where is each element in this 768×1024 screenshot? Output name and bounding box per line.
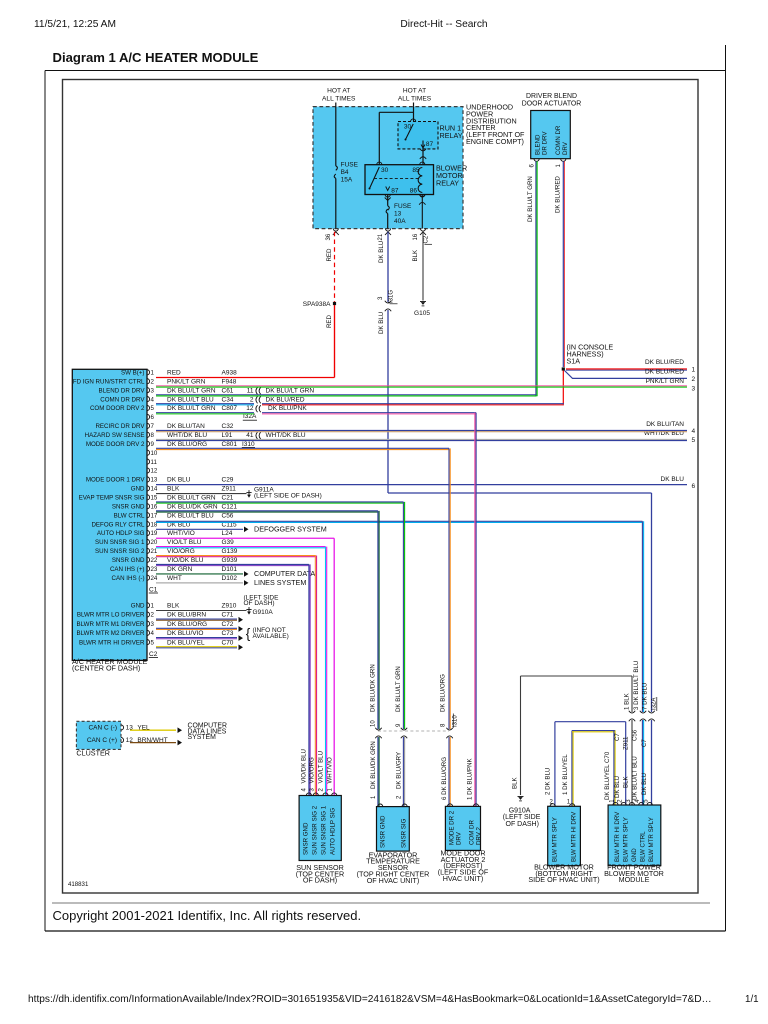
svg-text:A938: A938 — [222, 370, 238, 377]
svg-text:COMN DR: COMN DR — [555, 125, 562, 155]
svg-text:10: 10 — [151, 450, 158, 457]
svg-text:https://dh.identifix.com/Infor: https://dh.identifix.com/InformationAvai… — [28, 994, 712, 1005]
svg-text:4: 4 — [151, 396, 155, 403]
svg-text:SNSR GND: SNSR GND — [112, 557, 145, 564]
svg-text:BLW CTRL: BLW CTRL — [640, 831, 647, 862]
svg-text:12: 12 — [246, 405, 254, 412]
svg-text:Z910: Z910 — [222, 603, 237, 610]
svg-text:14: 14 — [151, 486, 158, 493]
svg-text:GND: GND — [131, 486, 145, 493]
svg-text:C2: C2 — [424, 235, 430, 243]
svg-text:3: 3 — [151, 621, 155, 628]
svg-text:RELAY: RELAY — [436, 179, 459, 188]
svg-text:WHT/VIO: WHT/VIO — [326, 757, 333, 783]
svg-text:20: 20 — [151, 539, 158, 546]
svg-text:C7: C7 — [641, 739, 648, 747]
svg-text:3: 3 — [692, 385, 696, 392]
svg-text:VIO/DK BLU: VIO/DK BLU — [300, 749, 307, 783]
svg-text:D102: D102 — [222, 575, 238, 582]
svg-text:Direct-Hit -- Search: Direct-Hit -- Search — [400, 19, 487, 30]
svg-text:DK BLU/LT GRN: DK BLU/LT GRN — [266, 387, 315, 394]
svg-text:1: 1 — [151, 370, 155, 377]
svg-text:CAN C (-): CAN C (-) — [88, 724, 117, 731]
svg-text:5: 5 — [151, 639, 155, 646]
svg-text:2: 2 — [151, 612, 155, 619]
svg-text:DEFOG RLY CTRL: DEFOG RLY CTRL — [91, 521, 145, 528]
svg-text:ALL TIMES: ALL TIMES — [322, 95, 356, 102]
svg-text:DK BLU/DK GRN: DK BLU/DK GRN — [369, 664, 376, 712]
svg-text:COM DOOR DRV 2: COM DOOR DRV 2 — [90, 405, 145, 412]
svg-text:15A: 15A — [341, 177, 353, 184]
svg-text:G939: G939 — [222, 557, 238, 564]
svg-text:BLW MTR SPLY: BLW MTR SPLY — [552, 817, 559, 862]
svg-text:G39: G39 — [222, 539, 235, 546]
svg-text:DR DRV: DR DRV — [542, 131, 549, 155]
svg-text:DK BLU/LT GRN: DK BLU/LT GRN — [527, 176, 534, 222]
svg-text:15: 15 — [151, 495, 158, 502]
svg-text:DRIVER BLEND: DRIVER BLEND — [526, 93, 577, 100]
svg-text:87: 87 — [426, 141, 434, 148]
svg-text:40A: 40A — [394, 218, 406, 225]
svg-text:2: 2 — [151, 378, 155, 385]
svg-text:9: 9 — [151, 441, 155, 448]
svg-text:DRV 2: DRV 2 — [475, 826, 482, 845]
svg-text:G139: G139 — [222, 548, 238, 555]
svg-text:C61: C61 — [222, 387, 234, 394]
svg-text:DEFOGGER SYSTEM: DEFOGGER SYSTEM — [254, 524, 327, 533]
svg-text:CAN C (+): CAN C (+) — [87, 737, 117, 744]
svg-text:21: 21 — [378, 233, 384, 240]
svg-text:OF DASH): OF DASH) — [506, 821, 539, 828]
svg-text:85: 85 — [412, 167, 420, 174]
svg-text:COMN DR DRV: COMN DR DRV — [100, 396, 145, 403]
svg-text:VIO/LT BLU: VIO/LT BLU — [167, 539, 202, 546]
svg-text:DK BLU/LT GRN: DK BLU/LT GRN — [167, 387, 216, 394]
svg-text:PNK/LT GRN: PNK/LT GRN — [167, 378, 206, 385]
svg-text:DK BLU/LT GRN: DK BLU/LT GRN — [167, 405, 216, 412]
svg-text:(CENTER OF DASH): (CENTER OF DASH) — [72, 664, 140, 673]
svg-text:1 BLK: 1 BLK — [624, 692, 631, 710]
svg-text:DK BLU/DK GRN: DK BLU/DK GRN — [167, 503, 218, 510]
svg-text:G910A: G910A — [253, 609, 274, 616]
svg-text:DK BLU/ORG: DK BLU/ORG — [440, 674, 447, 712]
svg-text:DK BLU: DK BLU — [661, 476, 685, 483]
svg-text:SYSTEM: SYSTEM — [188, 734, 217, 741]
svg-text:G105: G105 — [414, 310, 430, 317]
svg-text:22: 22 — [151, 557, 158, 564]
svg-text:CLUSTER: CLUSTER — [76, 749, 110, 758]
svg-text:1 DK BLU/YEL: 1 DK BLU/YEL — [562, 754, 569, 795]
svg-text:D101: D101 — [222, 566, 238, 573]
svg-text:HOT AT: HOT AT — [403, 88, 426, 95]
svg-text:36: 36 — [326, 233, 332, 240]
svg-text:BLK: BLK — [412, 249, 419, 262]
svg-text:AVAILABLE): AVAILABLE) — [253, 633, 289, 640]
svg-text:DK BLU: DK BLU — [167, 477, 191, 484]
svg-text:WHT/DK BLU: WHT/DK BLU — [167, 432, 207, 439]
svg-text:16: 16 — [413, 233, 419, 240]
svg-text:Z911: Z911 — [623, 736, 630, 750]
svg-text:FUSE: FUSE — [341, 162, 359, 169]
svg-text:5: 5 — [692, 437, 696, 444]
svg-text:I31G: I31G — [389, 290, 395, 303]
svg-text:BLW CTRL: BLW CTRL — [114, 512, 145, 519]
svg-text:C32: C32 — [222, 423, 234, 430]
svg-text:MODE DOOR 1 DRV: MODE DOOR 1 DRV — [86, 477, 146, 484]
svg-text:CAN IHS (-): CAN IHS (-) — [112, 575, 145, 582]
svg-text:3 DK BLU/LT BLU: 3 DK BLU/LT BLU — [633, 661, 640, 710]
svg-text:19: 19 — [151, 530, 158, 537]
svg-text:2: 2 — [250, 396, 254, 403]
svg-text:4: 4 — [692, 428, 696, 435]
svg-text:DK BLU: DK BLU — [378, 312, 385, 334]
svg-text:SNSR SIG: SNSR SIG — [401, 818, 408, 848]
svg-text:3: 3 — [151, 387, 155, 394]
svg-text:24: 24 — [151, 575, 158, 582]
svg-text:HOT AT: HOT AT — [327, 88, 350, 95]
svg-text:AUTO HDLP SIG: AUTO HDLP SIG — [330, 808, 337, 855]
svg-text:DK BLU/PNK: DK BLU/PNK — [268, 405, 307, 412]
svg-text:SW B(+): SW B(+) — [121, 370, 145, 377]
svg-text:DK BLU/ORG: DK BLU/ORG — [167, 621, 207, 628]
svg-text:DK BLU/LT BLU: DK BLU/LT BLU — [167, 396, 214, 403]
svg-text:SNSR GND: SNSR GND — [380, 815, 387, 848]
svg-text:16: 16 — [151, 503, 158, 510]
svg-text:OF DASH): OF DASH) — [244, 600, 275, 607]
svg-text:S1A: S1A — [567, 356, 581, 365]
svg-text:RECIRC DR DRV: RECIRC DR DRV — [95, 423, 145, 430]
svg-text:DK BLU/TAN: DK BLU/TAN — [167, 423, 205, 430]
svg-text:1 DK BLU/PNK: 1 DK BLU/PNK — [466, 757, 473, 800]
svg-text:(LEFT SIDE OF DASH): (LEFT SIDE OF DASH) — [254, 493, 322, 500]
svg-text:2: 2 — [692, 376, 696, 383]
svg-text:RELAY: RELAY — [440, 131, 463, 140]
svg-text:30: 30 — [381, 167, 389, 174]
svg-text:DK BLU/LT BLU: DK BLU/LT BLU — [632, 756, 639, 800]
svg-text:OF DASH): OF DASH) — [303, 876, 337, 885]
svg-text:C21: C21 — [222, 495, 234, 502]
svg-text:HVAC UNIT): HVAC UNIT) — [443, 874, 484, 883]
svg-text:23: 23 — [151, 566, 158, 573]
svg-text:21: 21 — [151, 548, 158, 555]
svg-text:Diagram 1 A/C HEATER MODULE: Diagram 1 A/C HEATER MODULE — [53, 50, 259, 65]
svg-text:13: 13 — [151, 477, 158, 484]
svg-text:11: 11 — [151, 459, 158, 466]
svg-text:L91: L91 — [222, 432, 233, 439]
svg-text:DK BLU/BRN: DK BLU/BRN — [167, 612, 206, 619]
svg-text:BLW MTR SPLY: BLW MTR SPLY — [648, 817, 655, 862]
svg-text:L24: L24 — [222, 530, 233, 537]
svg-text:GND: GND — [131, 603, 145, 610]
svg-text:DK BLU/YEL C70: DK BLU/YEL C70 — [604, 751, 611, 800]
svg-text:6: 6 — [151, 414, 155, 421]
svg-text:VIO/ORG: VIO/ORG — [309, 757, 316, 783]
svg-text:4: 4 — [151, 630, 155, 637]
svg-text:DK GRN: DK GRN — [167, 566, 193, 573]
svg-text:F948: F948 — [222, 378, 237, 385]
svg-text:87: 87 — [391, 188, 399, 195]
svg-text:1/1: 1/1 — [745, 994, 759, 1005]
svg-text:WHT/DK BLU: WHT/DK BLU — [266, 432, 306, 439]
svg-text:86: 86 — [410, 188, 418, 195]
svg-text:C56: C56 — [222, 512, 234, 519]
svg-text:C29: C29 — [222, 477, 234, 484]
svg-text:C34: C34 — [222, 396, 234, 403]
svg-text:SIDE OF HVAC UNIT): SIDE OF HVAC UNIT) — [528, 875, 599, 884]
svg-text:C56: C56 — [632, 729, 639, 741]
svg-text:DK BLU/LT BLU: DK BLU/LT BLU — [167, 512, 214, 519]
svg-text:Z911: Z911 — [222, 486, 237, 493]
svg-text:DK BLU/RED: DK BLU/RED — [645, 369, 684, 376]
svg-text:OF HVAC UNIT): OF HVAC UNIT) — [367, 876, 420, 885]
svg-text:BLEND: BLEND — [535, 134, 542, 155]
svg-text:BLWR MTR LO DRIVER: BLWR MTR LO DRIVER — [77, 612, 145, 619]
svg-text:DK BLU/VIO: DK BLU/VIO — [167, 630, 203, 637]
svg-text:6 DK BLU/ORG: 6 DK BLU/ORG — [441, 757, 448, 800]
svg-text:DK BLU/LT GRN: DK BLU/LT GRN — [167, 495, 216, 502]
svg-text:B4: B4 — [341, 169, 349, 176]
svg-text:DOOR ACTUATOR: DOOR ACTUATOR — [522, 101, 581, 108]
svg-text:DK BLU/YEL: DK BLU/YEL — [167, 639, 205, 646]
svg-text:DK BLU: DK BLU — [378, 241, 385, 263]
svg-text:DK BLU: DK BLU — [641, 773, 648, 795]
svg-text:SUN SNSR SIG 1: SUN SNSR SIG 1 — [321, 805, 328, 855]
svg-text:COMPUTER DATA: COMPUTER DATA — [254, 569, 315, 578]
svg-text:AUTO HDLP SIG: AUTO HDLP SIG — [97, 530, 145, 537]
svg-text:BLWR MTR M1 DRIVER: BLWR MTR M1 DRIVER — [77, 621, 145, 628]
svg-text:SUN SNSR SIG 1: SUN SNSR SIG 1 — [95, 539, 145, 546]
svg-text:11: 11 — [247, 387, 254, 394]
svg-text:2 DK BLU: 2 DK BLU — [545, 768, 552, 795]
svg-text:BLK: BLK — [167, 486, 180, 493]
svg-text:FUSE: FUSE — [394, 203, 412, 210]
svg-text:C72: C72 — [222, 621, 234, 628]
svg-text:7 DK BLU: 7 DK BLU — [641, 683, 648, 710]
svg-text:BLW MTR SPLY: BLW MTR SPLY — [623, 817, 630, 862]
svg-text:SNSR GND: SNSR GND — [112, 503, 145, 510]
svg-text:SPA938A: SPA938A — [303, 301, 331, 308]
svg-text:DK BLU/ORG: DK BLU/ORG — [167, 441, 207, 448]
svg-text:C73: C73 — [222, 630, 234, 637]
svg-text:12: 12 — [151, 468, 158, 475]
svg-text:DK BLU/RED: DK BLU/RED — [645, 359, 684, 366]
svg-text:RED: RED — [167, 370, 181, 377]
svg-text:BLK: BLK — [167, 603, 180, 610]
svg-text:BLK: BLK — [623, 776, 630, 788]
svg-text:DK BLU/TAN: DK BLU/TAN — [646, 421, 684, 428]
svg-text:ALL TIMES: ALL TIMES — [398, 95, 432, 102]
svg-text:7: 7 — [151, 423, 155, 430]
svg-text:WHT: WHT — [167, 575, 182, 582]
svg-text:BLW MTR HI DRV: BLW MTR HI DRV — [571, 811, 578, 862]
svg-text:41: 41 — [246, 432, 254, 439]
svg-text:PNK/LT GRN: PNK/LT GRN — [646, 378, 685, 385]
svg-text:WHT/VIO: WHT/VIO — [167, 530, 195, 537]
svg-text:BLWR MTR M2 DRIVER: BLWR MTR M2 DRIVER — [77, 630, 145, 637]
svg-text:C2: C2 — [149, 651, 158, 658]
svg-text:BLK: BLK — [512, 776, 519, 789]
svg-text:1: 1 — [692, 367, 696, 374]
svg-text:RED: RED — [326, 248, 333, 262]
svg-text:C7: C7 — [614, 733, 621, 741]
svg-text:ENGINE COMPT): ENGINE COMPT) — [466, 137, 524, 146]
svg-text:SUN SNSR SIG 2: SUN SNSR SIG 2 — [95, 548, 145, 555]
svg-text:MODE DOOR DRV 2: MODE DOOR DRV 2 — [86, 441, 145, 448]
svg-text:BLW MTR HI DRV: BLW MTR HI DRV — [614, 811, 621, 862]
svg-text:DRV: DRV — [562, 141, 569, 155]
svg-text:17: 17 — [151, 512, 158, 519]
svg-text:MODE DR 2: MODE DR 2 — [448, 810, 455, 845]
svg-text:C801: C801 — [222, 441, 238, 448]
svg-text:CAN IHS (+): CAN IHS (+) — [110, 566, 145, 573]
svg-text:BLEND DR DRV: BLEND DR DRV — [99, 387, 146, 394]
svg-text:RED: RED — [326, 314, 333, 328]
svg-text:MODULE: MODULE — [619, 875, 650, 884]
svg-text:BLWR MTR HI DRIVER: BLWR MTR HI DRIVER — [79, 639, 145, 646]
svg-text:GND: GND — [631, 848, 638, 862]
svg-text:DK BLU/DK GRN: DK BLU/DK GRN — [370, 741, 377, 789]
svg-text:Copyright 2001-2021 Identifix,: Copyright 2001-2021 Identifix, Inc. All … — [53, 908, 362, 923]
svg-text:VIO/LT BLU: VIO/LT BLU — [318, 751, 325, 784]
svg-text:SNSR GND: SNSR GND — [303, 822, 310, 855]
svg-text:HAZARD SW SENSE: HAZARD SW SENSE — [85, 432, 145, 439]
svg-text:C70: C70 — [222, 639, 234, 646]
svg-text:I310: I310 — [242, 441, 255, 448]
svg-text:FD IGN RUN/STRT CTRL: FD IGN RUN/STRT CTRL — [73, 378, 145, 385]
svg-text:418831: 418831 — [68, 881, 89, 888]
svg-text:EVAP TEMP SNSR SIG: EVAP TEMP SNSR SIG — [79, 495, 145, 502]
svg-text:VIO/ORG: VIO/ORG — [167, 548, 195, 555]
svg-text:C121: C121 — [222, 503, 238, 510]
svg-text:DK BLU/LT GRN: DK BLU/LT GRN — [395, 666, 402, 712]
svg-text:11/5/21, 12:25 AM: 11/5/21, 12:25 AM — [34, 19, 116, 30]
svg-text:VIO/DK BLU: VIO/DK BLU — [167, 557, 204, 564]
svg-text:C807: C807 — [222, 405, 238, 412]
svg-text:8: 8 — [151, 432, 155, 439]
svg-text:C71: C71 — [222, 612, 234, 619]
svg-text:10: 10 — [370, 720, 376, 727]
svg-text:DK BLU/RED: DK BLU/RED — [266, 396, 305, 403]
svg-text:6: 6 — [692, 483, 696, 490]
svg-text:C1: C1 — [149, 587, 158, 594]
svg-text:1: 1 — [151, 603, 155, 610]
svg-text:13: 13 — [394, 211, 402, 218]
svg-text:5: 5 — [151, 405, 155, 412]
svg-text:LINES SYSTEM: LINES SYSTEM — [254, 578, 306, 587]
svg-text:DK BLU/GRY: DK BLU/GRY — [395, 752, 402, 789]
svg-text:DRV: DRV — [455, 831, 462, 845]
svg-text:SUN SNSR SIG 2: SUN SNSR SIG 2 — [312, 805, 319, 855]
svg-text:{: { — [246, 626, 251, 641]
svg-text:DK BLU/RED: DK BLU/RED — [555, 176, 562, 213]
svg-text:DK BLU: DK BLU — [614, 776, 621, 798]
svg-text:COM DR: COM DR — [468, 820, 475, 845]
